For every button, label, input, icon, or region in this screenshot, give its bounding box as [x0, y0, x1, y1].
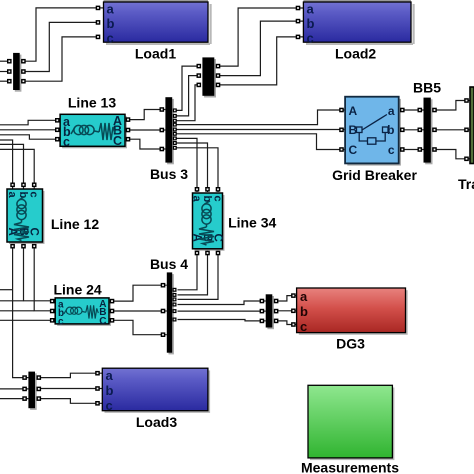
wire BB5 to Transformer phase A [431, 101, 470, 111]
wire Load3 bus to Load3 phase c [35, 399, 102, 404]
svg-text:a: a [107, 2, 115, 17]
svg-text:Measurements: Measurements [301, 460, 399, 474]
wire Grid Breaker to BB5 phase A [399, 109, 424, 111]
wire Line 24 to Bus 4 phase A [109, 285, 167, 301]
svg-text:a: a [106, 368, 114, 383]
block Line 12 (vertical) [6, 183, 99, 249]
svg-text:a: a [191, 196, 203, 203]
block Line 24 [50, 282, 114, 328]
svg-text:Line 13: Line 13 [68, 95, 116, 111]
block Transformer (cut off at right edge) [458, 87, 474, 192]
svg-text:c: c [300, 319, 307, 334]
wire BB5 to Transformer phase C [431, 150, 470, 159]
block Line 13 [55, 95, 130, 150]
wire left edge to Line 12 top phase c [0, 149, 34, 189]
wire left edge to Line 13 phase b [0, 129, 60, 131]
wire left edge to Line 12 top phase a [0, 140, 13, 189]
svg-text:Bus 4: Bus 4 [150, 256, 188, 272]
wire Bus 4 to DG bus phase a [178, 301, 266, 305]
bus bar DG (feeds DG3) [260, 294, 279, 329]
svg-text:BB5: BB5 [413, 80, 441, 96]
wire left edge to Line 24 c [0, 319, 55, 321]
svg-text:c: c [388, 143, 395, 157]
svg-text:b: b [300, 304, 308, 319]
wire Load1 port stubs [98, 7, 104, 9]
wire Line 12 bottom phase A to Load3 bus [13, 242, 29, 378]
wire Load3 bus to Load3 phase b [35, 388, 102, 390]
wire DG bus to DG3 phase a [272, 296, 296, 301]
svg-text:c: c [307, 31, 314, 46]
svg-text:Transf: Transf [458, 176, 474, 192]
wire Bus 3 to Line 34 phase c [176, 148, 218, 192]
wire edge branch to Line 24 a [0, 300, 24, 302]
wire Bus 4 to Line 34 bottom phase a [178, 249, 198, 290]
svg-text:a: a [388, 104, 395, 118]
wire edge stub to left bus BL1 port a [0, 60, 9, 62]
wire Load3 bus to Load3 phase a [35, 373, 102, 377]
wire left edge to Load3 bus port c [0, 398, 28, 400]
svg-text:DG3: DG3 [336, 336, 365, 352]
svg-text:Grid Breaker: Grid Breaker [332, 167, 417, 183]
svg-text:a: a [300, 289, 308, 304]
wire Line 12 bottom phase C to Line 24 b [34, 242, 55, 311]
wire BL1 to Load1 phase c [24, 37, 98, 81]
wire Line 24 to Bus 4 phase C [109, 320, 167, 334]
wire Bus 3 to top bus BT phase a [176, 66, 197, 110]
svg-text:C: C [113, 134, 122, 148]
wire Line 13 to Bus 3 phase A [125, 110, 165, 120]
svg-text:c: c [212, 196, 224, 202]
wire top bus BT to Load2 phase a [218, 8, 303, 66]
block Load3 [95, 368, 210, 430]
wire Bus 4 to Line 34 bottom phase c [178, 249, 219, 300]
svg-text:C: C [349, 143, 358, 157]
svg-text:b: b [201, 196, 213, 203]
wire Bus 3 to top bus BT phase b [176, 76, 197, 116]
bus bar top (between loads) [197, 57, 221, 97]
wire BL1 to Load1 phase b [24, 22, 98, 71]
wire Bus 4 to DG bus phase c [178, 320, 266, 321]
wire Line 24 to Bus 4 phase B [109, 310, 167, 312]
wire Bus 4 to Line 34 bottom phase b [178, 249, 208, 295]
wire Bus 3 to Grid Breaker phase A [176, 110, 345, 125]
wire left edge to Load3 bus port b [0, 388, 28, 390]
wire Grid Breaker to BB5 phase B [399, 129, 424, 131]
svg-text:A: A [349, 104, 358, 118]
wire edge stub to left bus BL1 port b [0, 71, 9, 73]
svg-text:b: b [307, 16, 315, 31]
svg-text:Line 12: Line 12 [51, 216, 99, 232]
svg-text:Line 34: Line 34 [228, 215, 276, 231]
wire edge branch to Line 24 b [0, 310, 34, 312]
svg-text:C: C [212, 234, 224, 242]
block Line 34 (vertical) [191, 187, 277, 255]
wire top bus BT to Load2 phase b [218, 21, 303, 76]
block Measurements [301, 385, 399, 474]
wire top bus BT to Load2 phase c [218, 37, 303, 85]
wire Bus 4 to DG bus phase b [178, 310, 266, 312]
wire Line 13 to Bus 3 phase C [125, 139, 165, 149]
wire Bus 3 to Grid Breaker phase C [176, 134, 345, 150]
wire Line 13 to Bus 3 phase B [125, 129, 165, 131]
wire left edge to Line 13 phase a [0, 120, 60, 125]
wire Line 12 bottom phase B to Line 24 a [24, 242, 56, 301]
wire BB5 to Transformer phase B [431, 129, 470, 131]
wire left edge to Line 12 top phase b [0, 144, 24, 189]
svg-text:Bus 3: Bus 3 [150, 166, 188, 182]
svg-text:Load1: Load1 [135, 46, 176, 62]
wire Bus 3 to top bus BT phase c [176, 85, 197, 121]
svg-text:Line 24: Line 24 [53, 282, 101, 298]
bus bar Bus 3 [150, 97, 188, 182]
svg-text:C: C [99, 316, 106, 327]
bus bar left (feeds Load1) [7, 53, 26, 92]
svg-text:a: a [307, 2, 315, 17]
svg-text:c: c [58, 317, 64, 328]
wire Bus 3 to Line 34 phase b [176, 143, 208, 192]
wire BL1 to Load1 phase a [24, 8, 98, 61]
wire DG bus to DG3 phase c [272, 321, 296, 325]
bus bar BB5 [413, 80, 441, 165]
svg-text:Load3: Load3 [136, 414, 177, 430]
wire Bus 3 to Line 34 phase a [176, 138, 197, 192]
svg-text:c: c [28, 192, 40, 198]
block DG3 [291, 288, 408, 352]
wire edge stub to left bus BL1 port c [0, 80, 9, 82]
bus bar Bus 4 [150, 256, 188, 354]
svg-text:Load2: Load2 [335, 46, 376, 62]
block Load2 [296, 0, 415, 62]
svg-text:c: c [106, 398, 113, 413]
block Load1 [96, 0, 212, 62]
wire DG bus to DG3 phase b [272, 310, 296, 312]
wire edge branch junction at x12 [0, 289, 13, 291]
wire Bus 3 to Grid Breaker phase B [176, 129, 345, 131]
svg-text:b: b [107, 16, 115, 31]
block Grid Breaker [332, 97, 417, 183]
bus bar Load3 feed [22, 372, 41, 410]
svg-text:C: C [28, 228, 40, 236]
wire left edge to Line 13 phase c [0, 135, 60, 139]
wire Grid Breaker to BB5 phase C [399, 149, 424, 151]
svg-text:c: c [63, 135, 70, 149]
svg-text:b: b [106, 383, 114, 398]
svg-text:c: c [107, 31, 114, 46]
svg-text:a: a [6, 192, 18, 199]
